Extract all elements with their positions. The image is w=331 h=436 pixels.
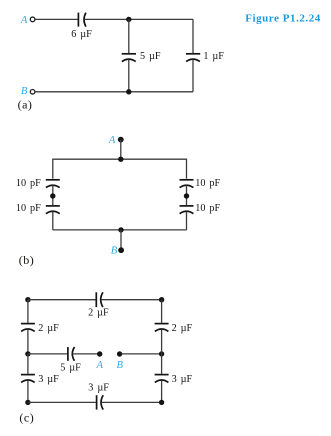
wire left between caps (circuit b) <box>52 185 54 205</box>
svg-text:Figure P1.2.24: Figure P1.2.24 <box>245 12 321 24</box>
value label 3 uF bottom <box>88 382 109 393</box>
sub-label (b) <box>19 253 35 267</box>
capacitor 3 uF right (circuit c) <box>155 375 169 383</box>
svg-text:(b): (b) <box>19 253 35 267</box>
svg-text:3 µF: 3 µF <box>38 374 59 385</box>
svg-text:A: A <box>20 15 28 26</box>
wire 5uF down to bottom wire <box>128 60 130 92</box>
node junction top-left (circuit c) <box>25 297 30 302</box>
svg-text:5 µF: 5 µF <box>140 51 161 62</box>
svg-text:A: A <box>95 360 103 371</box>
svg-text:(c): (c) <box>19 410 34 424</box>
value label 6 uF <box>71 29 92 40</box>
bottom wire B to right (circuit a) <box>35 91 193 93</box>
middle wire B to right (circuit c) <box>121 353 161 355</box>
bottom wire right segment (circuit c) <box>101 401 161 403</box>
node junction left middle (circuit b) <box>50 193 55 198</box>
svg-text:2 µF: 2 µF <box>172 323 193 334</box>
capacitor 6 uF (circuit a) <box>78 13 86 27</box>
wire A to C1 <box>35 18 78 20</box>
svg-text:B: B <box>111 245 118 256</box>
bottom wire left segment (circuit c) <box>28 401 96 403</box>
capacitor 10 pF left-bottom (circuit b) <box>46 206 60 214</box>
node junction top (circuit b) <box>118 157 123 162</box>
svg-text:3 µF: 3 µF <box>88 382 109 393</box>
svg-text:6 µF: 6 µF <box>71 29 92 40</box>
svg-text:2 µF: 2 µF <box>38 323 59 334</box>
value label 3 uF left <box>38 374 59 385</box>
capacitor 2 uF left (circuit c) <box>21 324 35 332</box>
value label 10 pF left-bottom <box>16 203 41 214</box>
svg-text:A: A <box>108 135 116 146</box>
terminal B dot (circuit b) <box>118 247 124 253</box>
wire left lower segment (circuit b) <box>52 212 54 230</box>
value label 5 uF middle <box>60 362 81 373</box>
figure caption "Figure P1.2.24" <box>245 12 321 24</box>
node B label (circuit c) <box>117 360 124 371</box>
wire junction down to 5uF <box>128 19 130 53</box>
node A dot (circuit c) <box>97 351 102 356</box>
top wire right segment (circuit c) <box>101 299 162 301</box>
capacitor 10 pF right-top (circuit b) <box>180 180 194 188</box>
top wire left segment (circuit c) <box>28 299 96 301</box>
node junction bottom (circuit a) <box>126 89 131 94</box>
wire right lower segment (circuit c) <box>161 380 163 402</box>
svg-text:5 µF: 5 µF <box>60 362 81 373</box>
capacitor 2 uF right (circuit c) <box>155 324 169 332</box>
node B (circuit a) label <box>21 86 28 97</box>
capacitor 5 uF (circuit a) <box>122 54 136 62</box>
top wire (circuit b) <box>53 158 187 160</box>
value label 10 pF left-top <box>16 178 41 189</box>
bottom wire (circuit b) <box>53 229 187 231</box>
node A label (circuit c) <box>95 360 103 371</box>
sub-label (a) <box>18 97 33 111</box>
wire right cap to mid junction (circuit c) <box>161 329 163 354</box>
svg-text:10 pF: 10 pF <box>195 203 220 214</box>
value label 10 pF right-top <box>195 178 220 189</box>
node junction mid-right (circuit c) <box>159 351 164 356</box>
wire right upper segment (circuit c) <box>161 300 163 323</box>
node junction top (circuit a) <box>126 17 131 22</box>
node A (circuit b) label <box>108 135 116 146</box>
capacitor 10 pF left-top (circuit b) <box>46 180 60 188</box>
capacitor 2 uF top (circuit c) <box>96 292 103 307</box>
wire left cap to mid junction (circuit c) <box>27 329 29 354</box>
node junction right middle (circuit b) <box>184 193 189 198</box>
node A (circuit a) label <box>20 15 28 26</box>
node junction bottom-right (circuit c) <box>159 400 164 405</box>
value label 2 uF left <box>38 323 59 334</box>
wire left upper segment (circuit c) <box>27 300 29 323</box>
value label 3 uF right <box>172 374 193 385</box>
middle wire left segment (circuit c) <box>28 353 68 355</box>
capacitor 3 uF left (circuit c) <box>21 375 35 383</box>
svg-text:10 pF: 10 pF <box>16 203 41 214</box>
wire C1 to top-right corner (circuit a) <box>84 18 193 20</box>
node B dot (circuit c) <box>117 351 122 356</box>
value label 5 uF <box>140 51 161 62</box>
wire left upper segment (circuit b) <box>52 159 54 179</box>
value label 2 uF top <box>88 308 109 319</box>
svg-text:B: B <box>21 86 28 97</box>
capacitor 10 pF right-bottom (circuit b) <box>180 206 194 214</box>
value label 2 uF right <box>172 323 193 334</box>
capacitor 5 uF middle (circuit c) <box>68 347 75 361</box>
value label 1 uF <box>203 51 224 62</box>
wire 1uF down to bottom-right corner <box>192 60 194 92</box>
node junction mid-left (circuit c) <box>25 351 30 356</box>
wire left mid to lower cap (circuit c) <box>27 354 29 374</box>
capacitor 3 uF bottom (circuit c) <box>97 395 104 409</box>
node junction top-right (circuit c) <box>159 297 164 302</box>
svg-text:3 µF: 3 µF <box>172 374 193 385</box>
middle wire cap to node A (circuit c) <box>73 353 98 355</box>
wire stub A to top wire (circuit b) <box>120 140 122 160</box>
wire right mid to lower cap (circuit c) <box>161 354 163 374</box>
svg-text:10 pF: 10 pF <box>16 178 41 189</box>
wire right between caps (circuit b) <box>186 185 188 205</box>
value label 10 pF right-bottom <box>195 203 220 214</box>
svg-text:B: B <box>117 360 124 371</box>
node B (circuit b) label <box>111 245 118 256</box>
terminal B open circle (circuit a) <box>30 90 35 95</box>
svg-text:2 µF: 2 µF <box>88 308 109 319</box>
svg-text:1 µF: 1 µF <box>203 51 224 62</box>
wire left lower segment (circuit c) <box>27 380 29 402</box>
node junction bottom-left (circuit c) <box>25 400 30 405</box>
terminal A dot (circuit b) <box>118 137 124 143</box>
wire right lower segment (circuit b) <box>186 212 188 230</box>
wire stub to B (circuit b) <box>120 230 122 250</box>
capacitor 1 uF (circuit a) <box>186 54 200 62</box>
svg-text:(a): (a) <box>18 97 33 111</box>
sub-label (c) <box>19 410 34 424</box>
node junction bottom (circuit b) <box>118 227 123 232</box>
svg-text:10 pF: 10 pF <box>195 178 220 189</box>
wire right side top (circuit a) <box>192 19 194 53</box>
wire right upper segment (circuit b) <box>186 159 188 179</box>
terminal A open circle (circuit a) <box>30 17 35 22</box>
